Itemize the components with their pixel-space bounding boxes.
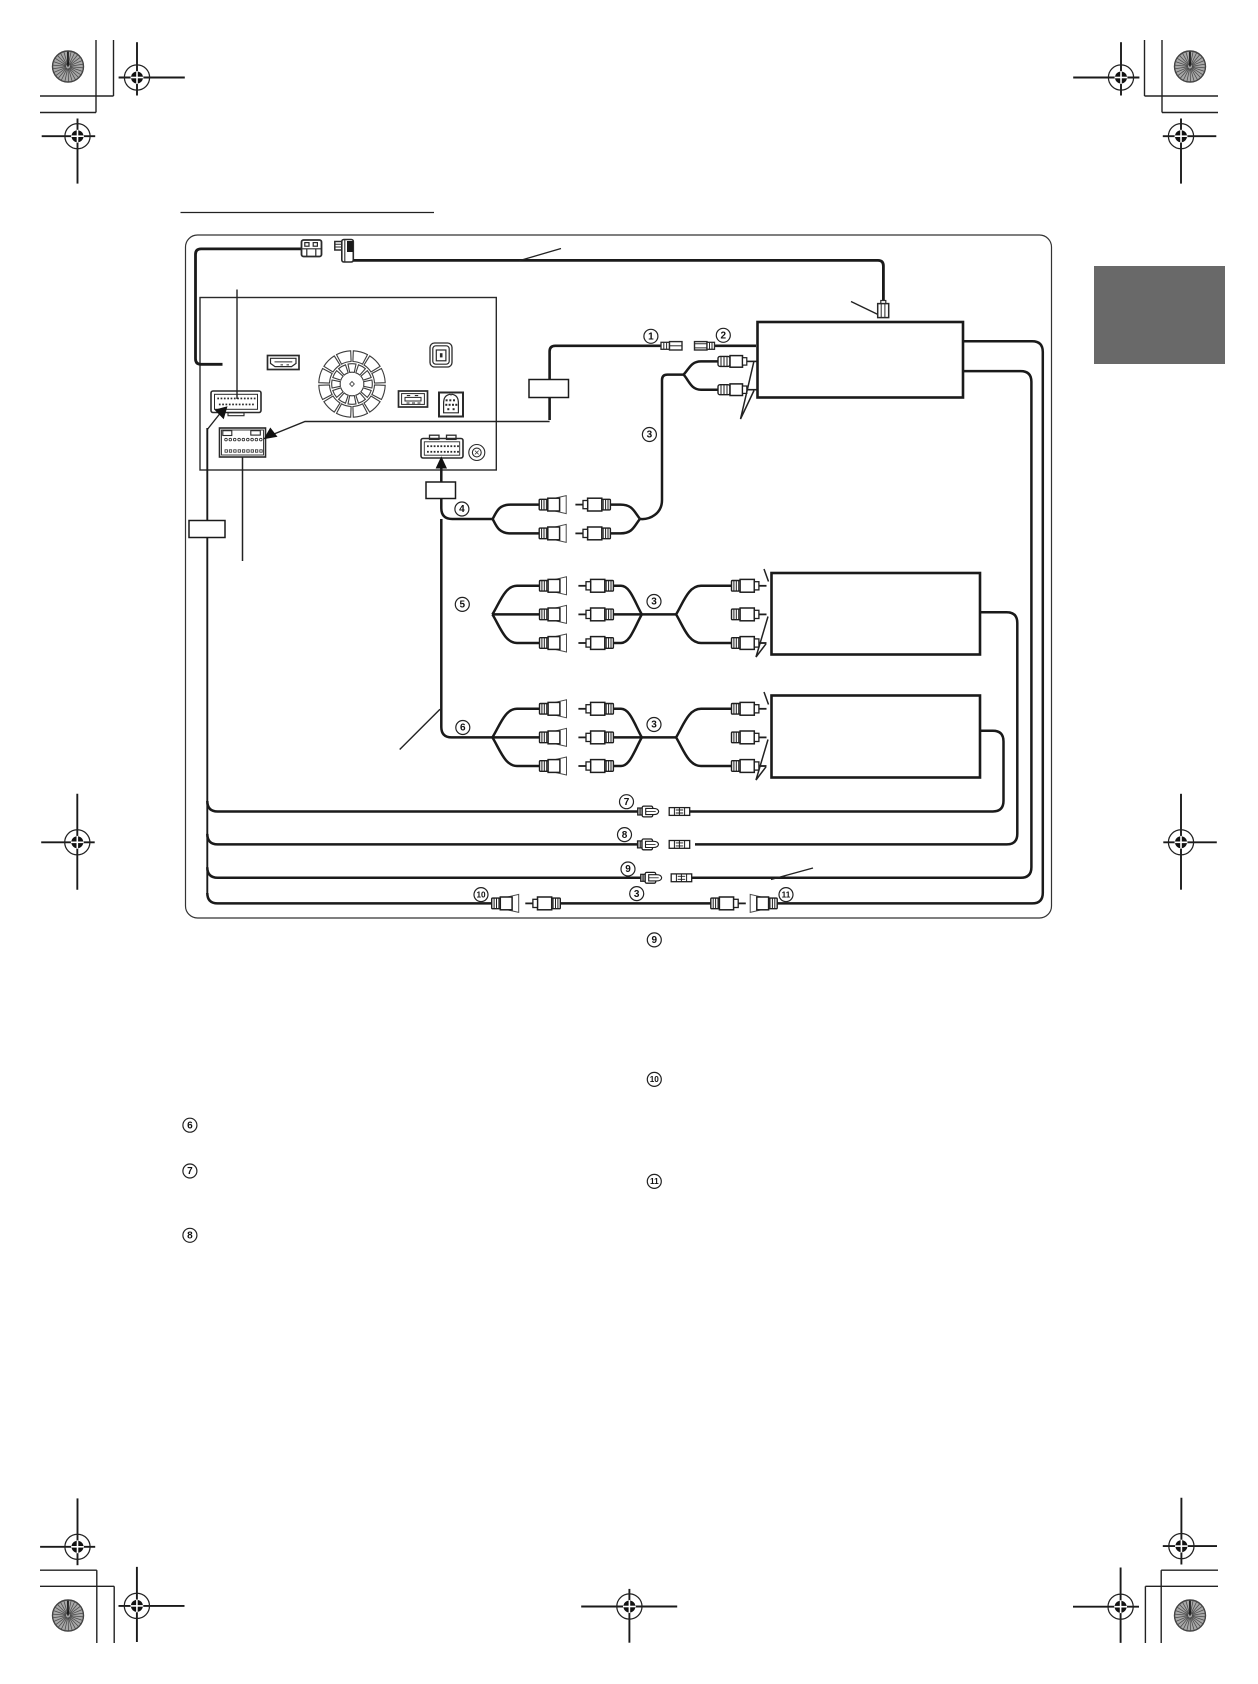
crop marks bottom-left corner	[40, 1570, 114, 1643]
amp 1 output wire	[695, 612, 1017, 844]
svg-text:3: 3	[647, 430, 653, 441]
registration star top-right	[1174, 51, 1206, 83]
registration crosshair bottom-right lower	[1073, 1568, 1139, 1643]
antenna wire to tuner box	[353, 260, 883, 303]
svg-text:11: 11	[782, 890, 791, 899]
connector 2 (antenna female)	[695, 342, 715, 350]
svg-text:8: 8	[187, 1231, 193, 1242]
svg-text:7: 7	[624, 797, 630, 808]
mini-DIN connector	[439, 393, 463, 417]
tuner box connection mark	[741, 361, 755, 419]
wire into 22-pin connector	[236, 290, 238, 400]
registration crosshair top-left upper	[119, 42, 185, 95]
amp 2 tick mark	[764, 692, 769, 705]
row 10 RCA female	[492, 894, 519, 912]
amp 1 bottom input plug	[732, 637, 767, 650]
list circle 6	[183, 1118, 197, 1132]
amp 1 connection mark	[756, 617, 768, 658]
tuner box lower input plug	[718, 384, 757, 396]
svg-text:3: 3	[651, 597, 657, 608]
tuner jack wires	[683, 361, 718, 375]
label circle 6	[456, 721, 470, 735]
label circle 8	[618, 828, 632, 842]
cable 4 lower RCA male	[575, 527, 610, 540]
label circle 10	[474, 888, 488, 902]
registration crosshair middle-left	[41, 794, 94, 890]
list circle 7	[183, 1164, 197, 1178]
label circle 3 (cable 5)	[647, 595, 661, 609]
wire row 10 middle	[560, 902, 711, 905]
crop marks bottom-right corner	[1145, 1570, 1218, 1643]
cable 4 fork wires	[493, 505, 640, 534]
tuner box upper input plug	[718, 356, 757, 368]
row 9 male spade	[671, 874, 692, 882]
svg-text:9: 9	[652, 935, 658, 946]
list circle 10	[647, 1072, 661, 1086]
diagram outer border	[186, 235, 1052, 918]
cable 5 top RCA male	[578, 579, 613, 592]
tuner box power plug	[878, 301, 889, 318]
amp 2 connection mark	[756, 740, 768, 781]
svg-text:6: 6	[187, 1120, 193, 1131]
row 10 RCA male	[525, 897, 560, 910]
registration star bottom-right	[1174, 1600, 1206, 1632]
registration star top-left	[52, 51, 84, 83]
row 7 male spade	[669, 808, 690, 816]
amp 2 bottom input plug	[732, 760, 767, 773]
label circle 7	[620, 795, 634, 809]
cable 5 mid RCA female	[540, 605, 567, 623]
cable 4 lower RCA female	[539, 524, 566, 542]
20-pin AV connector	[421, 435, 463, 458]
USB port	[399, 391, 428, 407]
registration crosshair top-right lower	[1163, 119, 1217, 184]
label circle 2	[716, 328, 730, 342]
left wire bundle	[206, 428, 208, 894]
label circle 4	[455, 502, 469, 516]
registration crosshair bottom-left upper	[40, 1498, 95, 1565]
wire row 8 left	[207, 834, 638, 845]
crop marks top-right corner	[1145, 40, 1219, 113]
registration crosshair bottom-center	[581, 1589, 677, 1643]
label circle 9	[621, 862, 635, 876]
tuner box	[758, 322, 964, 398]
label circle 3 (row 10)	[630, 887, 644, 901]
cable 6 bottom RCA male	[578, 760, 613, 773]
connector 1 (antenna male)	[661, 342, 682, 350]
svg-text:3: 3	[651, 720, 657, 731]
HDMI connector	[268, 356, 300, 370]
tuner box upper output wire	[777, 341, 1043, 903]
pointer to 22-pin connector	[207, 414, 220, 430]
section title underline	[181, 212, 435, 214]
row 11 RCA female	[750, 894, 777, 912]
cable 5 fork wires	[492, 586, 732, 643]
antenna wire into tuner box	[714, 344, 756, 347]
row 8 female spade	[638, 839, 659, 850]
cable 5 mid RCA male	[578, 608, 613, 621]
registration crosshair bottom-right upper	[1163, 1498, 1217, 1565]
svg-text:7: 7	[187, 1166, 193, 1177]
antenna extension label box	[529, 380, 569, 398]
cable 5 top RCA female	[540, 577, 567, 595]
svg-text:6: 6	[460, 723, 466, 734]
arrowhead at 16-pin connector	[264, 428, 278, 440]
head unit rear panel	[200, 298, 496, 471]
registration star bottom-left	[52, 1600, 84, 1632]
crop marks top-left corner	[40, 40, 114, 113]
label circle 11	[779, 888, 793, 902]
amp 1 tick mark	[764, 569, 769, 582]
svg-text:4: 4	[459, 504, 465, 515]
wire row 10 left	[207, 893, 491, 903]
row 7 female spade	[638, 806, 659, 817]
tick on row 9 wire	[771, 868, 813, 880]
cable 5 bottom RCA female	[540, 634, 567, 652]
svg-text:3: 3	[634, 889, 640, 900]
label circle 3 (riser)	[642, 428, 656, 442]
registration crosshair middle-right	[1163, 794, 1217, 890]
registration crosshair top-right upper	[1073, 42, 1139, 95]
cable 6 fork wires	[492, 709, 732, 766]
row 9 female spade	[641, 872, 662, 883]
svg-text:1: 1	[648, 332, 654, 343]
list circle 8	[183, 1228, 197, 1242]
label circle 1	[644, 329, 658, 343]
registration crosshair top-left lower	[42, 119, 95, 184]
cable 3 riser wire	[639, 375, 684, 519]
amp 2 top input plug	[732, 702, 767, 715]
pointer to cable 6	[400, 709, 440, 749]
cable 4 upper RCA male	[575, 498, 610, 511]
list circle 11	[647, 1174, 661, 1188]
cable 6 mid RCA male	[578, 731, 613, 744]
pointer to tuner plug	[851, 302, 879, 316]
16-pin power connector	[220, 428, 266, 457]
amp 1 mid input plug	[732, 608, 767, 621]
cable 5 bottom RCA male	[578, 637, 613, 650]
antenna lead-in stub wire	[196, 249, 302, 364]
svg-text:11: 11	[650, 1177, 659, 1186]
tick on antenna wire	[520, 249, 562, 261]
svg-text:8: 8	[622, 830, 628, 841]
amplifier 1 box	[772, 573, 981, 655]
cable 6 top RCA female	[540, 700, 567, 718]
amp 2 mid input plug	[732, 731, 767, 744]
cable 6 bottom RCA female	[540, 757, 567, 775]
pointer wire to 16-pin connector	[270, 422, 550, 436]
cable 6 mid RCA female	[540, 728, 567, 746]
GPS antenna jack (square)	[430, 343, 452, 367]
label circle 3 (cable 6)	[647, 718, 661, 732]
svg-text:9: 9	[625, 864, 631, 875]
registration crosshair bottom-left lower	[119, 1567, 185, 1642]
cable 4 upper RCA female	[539, 496, 566, 514]
cable 4 label box	[426, 482, 456, 499]
cable 4 main wire from 20-pin connector	[441, 463, 492, 519]
svg-text:2: 2	[721, 331, 727, 342]
cable 6 top RCA male	[578, 702, 613, 715]
list circle 9	[647, 933, 661, 947]
svg-text:10: 10	[476, 890, 486, 899]
amp 2 output wire	[689, 731, 1004, 812]
svg-text:5: 5	[460, 600, 466, 611]
22-pin display connector	[211, 391, 261, 416]
cooling fan grille	[319, 351, 385, 417]
radio antenna socket	[469, 445, 485, 461]
amplifier 2 box	[772, 696, 981, 778]
wire row 9 left	[207, 867, 641, 878]
antenna adapter female connector	[302, 240, 322, 257]
svg-text:10: 10	[650, 1075, 660, 1084]
wire from 16-pin connector	[242, 458, 244, 562]
amp 1 top input plug	[732, 579, 767, 592]
row 11 RCA male	[711, 897, 746, 910]
left bundle label box	[189, 521, 225, 538]
arrowhead at 22-pin connector	[215, 406, 228, 419]
wire row 7 left	[207, 801, 638, 812]
row 8 male spade	[669, 841, 690, 849]
grey side tab	[1094, 266, 1225, 364]
antenna plug (angled)	[335, 240, 354, 263]
arrowhead into 20-pin connector	[436, 456, 447, 468]
tuner box lower output wire	[692, 371, 1032, 878]
wire to connector 1	[550, 346, 661, 420]
label circle 5	[455, 597, 469, 611]
